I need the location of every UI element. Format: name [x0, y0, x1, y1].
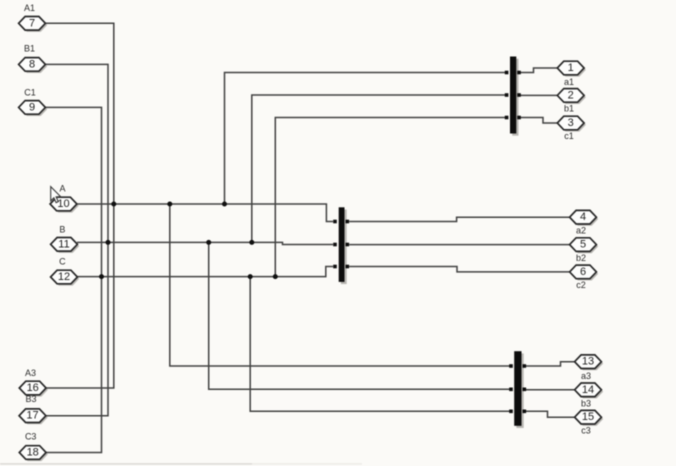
svg-text:4: 4 — [580, 211, 586, 223]
outport 6 c2 — [570, 265, 599, 290]
svg-text:5: 5 — [580, 239, 586, 251]
wire net A vertical: inport 7 (A1) to inport 16 (A3) — [45, 23, 114, 388]
svg-text:9: 9 — [29, 101, 35, 113]
svg-text:b1: b1 — [564, 104, 574, 114]
svg-text:17: 17 — [26, 410, 38, 422]
inport 9 C1 — [19, 87, 48, 116]
wire Mux B output 1 to outport 13 — [525, 362, 575, 366]
svg-text:C3: C3 — [25, 431, 37, 441]
wire net A: inport 10 (A) to Mux M input 1 — [77, 204, 334, 222]
wire net B: inport 11 (B) to Mux M input 2 — [77, 242, 333, 244]
svg-text:A3: A3 — [25, 368, 36, 378]
svg-text:A1: A1 — [24, 3, 35, 13]
svg-text:18: 18 — [27, 447, 39, 459]
junction net A / Mux T tap — [222, 202, 227, 207]
svg-text:1: 1 — [568, 62, 574, 74]
wire net A tap to Mux T input 1 — [225, 73, 506, 205]
junction net A / Mux B tap — [167, 202, 172, 207]
outport 5 b2 — [570, 238, 599, 263]
inport 11 B — [51, 225, 80, 253]
svg-text:6: 6 — [580, 266, 586, 278]
inport 8 B1 — [19, 44, 48, 74]
mux M (middle, outputs a2 b2 c2) — [333, 207, 349, 284]
svg-text:B: B — [59, 225, 65, 235]
wire Mux M output 1 to outport 4 — [349, 217, 570, 221]
wire Mux T output 1 to outport 1 — [520, 68, 557, 73]
svg-text:c1: c1 — [564, 131, 574, 141]
svg-text:a3: a3 — [581, 371, 591, 381]
mouse cursor arrow — [51, 187, 61, 203]
inport 18 C3 — [19, 431, 48, 461]
svg-text:B1: B1 — [24, 44, 35, 54]
inport 16 A3 — [19, 368, 48, 397]
junction net B / Mux T tap — [249, 240, 254, 245]
svg-text:C1: C1 — [24, 87, 36, 97]
outport 1 a1 — [557, 61, 586, 87]
svg-text:A: A — [59, 184, 65, 194]
svg-text:10: 10 — [57, 198, 69, 210]
junction net C / Mux B tap — [248, 274, 253, 279]
mux T (top, outputs a1 b1 c1) — [505, 57, 521, 136]
svg-text:b3: b3 — [581, 398, 591, 408]
outport 15 c3 — [575, 410, 604, 435]
outport 13 a3 — [575, 355, 604, 381]
svg-text:3: 3 — [568, 117, 574, 129]
wire net C tap to Mux T input 3 — [275, 118, 505, 277]
wire net B tap to Mux T input 2 — [252, 95, 505, 242]
outport 14 b3 — [575, 383, 604, 408]
svg-text:B3: B3 — [25, 394, 36, 404]
svg-text:16: 16 — [27, 382, 39, 394]
inport 12 C — [51, 257, 80, 286]
svg-text:11: 11 — [58, 238, 69, 250]
svg-text:b2: b2 — [576, 253, 586, 263]
junction net B / inport 8 line — [106, 240, 111, 245]
wire net C vertical: inport 9 (C1) to inport 18 (C3) — [45, 107, 102, 452]
outport 3 c1 — [557, 116, 586, 141]
svg-text:a1: a1 — [564, 77, 574, 87]
svg-text:8: 8 — [29, 58, 35, 70]
svg-text:C: C — [59, 257, 66, 267]
svg-text:2: 2 — [568, 89, 574, 101]
wire net C: inport 12 (C) to Mux M input 3 — [77, 267, 333, 277]
svg-text:c2: c2 — [576, 280, 586, 290]
svg-text:a2: a2 — [576, 226, 586, 236]
junction net C / Mux T tap — [273, 274, 278, 279]
wire net B tap to Mux B input 2 — [209, 242, 511, 389]
outport 2 b1 — [557, 89, 586, 114]
inport 7 A1 — [19, 3, 48, 32]
wire net A tap to Mux B input 1 — [170, 204, 511, 366]
svg-text:15: 15 — [582, 411, 594, 423]
wire Mux T output 3 to outport 3 — [520, 118, 557, 124]
svg-text:12: 12 — [58, 271, 70, 283]
faint bottom edge line — [0, 463, 362, 464]
inport 10 A — [50, 184, 79, 213]
outport 4 a2 — [570, 210, 599, 235]
svg-text:14: 14 — [582, 384, 594, 396]
mux B (bottom, outputs a3 b3 c3) — [509, 351, 526, 428]
wire Mux M output 3 to outport 6 — [349, 267, 570, 272]
wire Mux B output 2 to outport 14 — [525, 389, 575, 391]
svg-text:13: 13 — [582, 356, 594, 368]
wire Mux T output 2 to outport 2 — [520, 94, 557, 96]
inport 17 B3 — [19, 394, 48, 425]
junction net A / inport 7 line — [111, 202, 116, 207]
svg-text:c3: c3 — [581, 426, 591, 436]
wire Mux M output 2 to outport 5 — [349, 244, 570, 246]
wire net B vertical: inport 8 (B1) to inport 17 (B3) — [45, 64, 108, 415]
junction net C / inport 9 line — [99, 274, 104, 279]
wire net C tap to Mux B input 3 — [250, 277, 510, 412]
svg-text:7: 7 — [29, 17, 35, 29]
wire Mux B output 3 to outport 15 — [525, 411, 575, 417]
junction net B / Mux B tap — [206, 240, 211, 245]
